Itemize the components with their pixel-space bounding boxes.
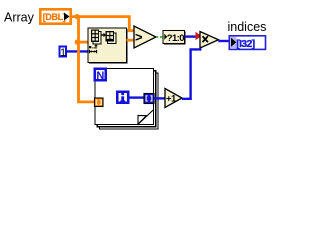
svg-text:+1: +1: [166, 94, 177, 105]
iteration terminal i: [116, 91, 130, 105]
wire: branch to Array Subset: [79, 41, 89, 44]
node Multiply: [200, 32, 219, 49]
node Boolean To (1,0) ?1:0: [163, 31, 186, 45]
node Increment +1: [165, 89, 182, 108]
indicator terminal indices [I32]: [229, 36, 265, 50]
coercion arrow (red): [196, 32, 202, 40]
wire: Array Subset output: [127, 39, 136, 42]
node Greater?: [134, 26, 156, 48]
svg-text:N: N: [96, 70, 104, 82]
wire: boolean Greater to ?1:0: [156, 36, 164, 38]
length glyph: [88, 50, 90, 53]
grid1 shadow page: [93, 32, 101, 45]
grid2 shadow page: [108, 33, 117, 44]
index glyph: [89, 46, 91, 48]
for loop (stacked frames): [95, 69, 158, 130]
svg-text:[DBL]: [DBL]: [43, 12, 66, 22]
wire: DBL terminal top run to Greater input: [72, 17, 135, 31]
tunnel right (auto-index, blue): [144, 94, 154, 104]
wire: i to right tunnel: [129, 96, 144, 98]
wire: constant 1 to Array Subset: [67, 50, 89, 52]
svg-text:indices: indices: [228, 20, 267, 34]
arrow: [101, 34, 104, 36]
constant 1: [60, 47, 67, 59]
svg-text:1: 1: [60, 47, 66, 59]
junction dot top: [75, 14, 80, 19]
svg-text:[I32]: [I32]: [236, 38, 254, 50]
svg-text:?1:0: ?1:0: [167, 33, 184, 44]
control terminal Array [DBL]: [40, 9, 70, 23]
tunnel left (auto-index, orange): [95, 98, 104, 107]
svg-text:Array: Array: [4, 11, 35, 25]
wire: tunnel to increment: [154, 97, 165, 99]
wire: ?1:0 to Multiply: [185, 35, 197, 37]
grid1: [91, 30, 99, 43]
svg-text:>: >: [135, 29, 143, 44]
wire: increment output up to Multiply: [182, 49, 202, 98]
dog-ear fold: [138, 110, 154, 125]
node Array Subset U1: [88, 28, 128, 64]
grid2: [106, 31, 115, 42]
wire: Multiply output to indices: [218, 40, 229, 42]
count terminal N: [94, 68, 108, 83]
wire: down from junction to loop tunnel: [79, 17, 95, 102]
junction dot mid: [75, 40, 80, 45]
